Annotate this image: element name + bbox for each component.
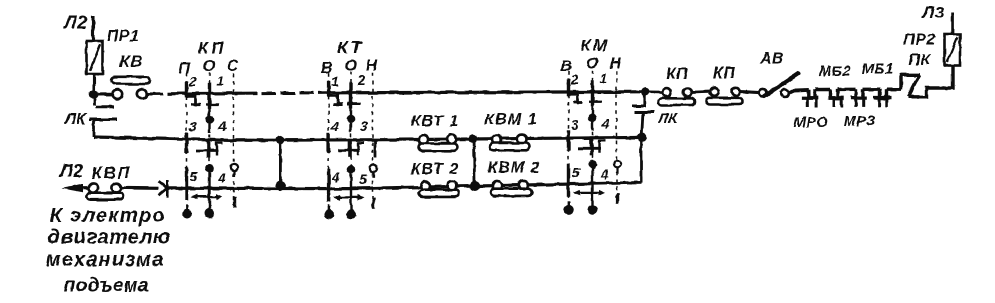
svg-text:КВМ 1: КВМ 1 (484, 112, 537, 129)
svg-text:1: 1 (599, 70, 607, 86)
node (closed in position О) (588, 113, 597, 122)
closure range arrows (337, 196, 360, 198)
wire (rail2-rail3 tie) (279, 140, 282, 186)
svg-text:МБ2: МБ2 (819, 64, 851, 80)
svg-text:механизма: механизма (46, 249, 165, 271)
svg-text:КП: КП (198, 38, 226, 57)
svg-text:ПК: ПК (908, 52, 931, 69)
node junction (470, 181, 480, 191)
svg-text:ПР2: ПР2 (903, 32, 936, 49)
wire (coil line) (793, 88, 809, 92)
node junction (468, 134, 477, 143)
svg-text:КП: КП (713, 65, 735, 82)
svg-text:КВ: КВ (119, 52, 143, 71)
node (position Н) (370, 165, 377, 172)
svg-text:КВП: КВП (92, 164, 132, 183)
svg-text:КТ: КТ (337, 38, 363, 57)
wire (788, 90, 794, 93)
svg-text:1: 1 (216, 72, 224, 88)
svg-text:МРО: МРО (794, 115, 829, 131)
svg-text:О: О (345, 57, 358, 74)
svg-text:подъема: подъема (64, 276, 149, 297)
wire rail 3 (121, 186, 159, 190)
svg-text:1: 1 (331, 73, 339, 89)
fuse ПР1 (87, 41, 103, 74)
svg-text:Л2: Л2 (58, 161, 83, 181)
node (closed in position О) (347, 115, 356, 124)
svg-text:ЛК: ЛК (657, 110, 678, 126)
wire (Н column mark) (374, 141, 377, 158)
node (position Н) (614, 160, 621, 167)
node junction (89, 90, 98, 99)
svg-text:2: 2 (188, 73, 197, 89)
svg-text:3: 3 (571, 116, 579, 132)
wire (838, 88, 856, 91)
node (closed in position О) (205, 164, 214, 173)
node (closed in position О) (205, 115, 214, 124)
closure range arrows (195, 196, 219, 198)
node junction (637, 133, 646, 142)
svg-text:4: 4 (217, 170, 226, 186)
svg-text:4: 4 (331, 169, 340, 185)
svg-text:двигателю: двигателю (48, 227, 171, 249)
wire (887, 87, 902, 90)
svg-text:5: 5 (190, 168, 198, 184)
wire (92, 74, 95, 92)
svg-text:3: 3 (189, 119, 197, 135)
wire rail 3 (167, 183, 641, 189)
svg-text:Н: Н (365, 57, 377, 74)
svg-text:МРЗ: МРЗ (844, 114, 876, 130)
svg-text:5: 5 (359, 171, 367, 187)
wire (rail2-rail3 tie) (473, 139, 476, 186)
svg-text:ЛК: ЛК (64, 111, 87, 128)
node junction (275, 181, 285, 191)
node junction (276, 135, 285, 144)
svg-text:4: 4 (217, 118, 226, 134)
node junction (641, 87, 650, 96)
wire rail 1 (98, 93, 113, 96)
svg-text:МБ1: МБ1 (862, 62, 894, 78)
wire (692, 90, 710, 94)
svg-text:АВ: АВ (759, 51, 784, 68)
svg-text:4: 4 (600, 166, 609, 182)
wire (740, 92, 759, 93)
svg-text:4: 4 (600, 116, 609, 132)
svg-text:С: С (226, 58, 238, 75)
wire (91, 16, 94, 41)
wire (650, 90, 663, 93)
wire (815, 88, 830, 91)
svg-text:КВМ 2: КВМ 2 (487, 160, 540, 177)
chevron mark (159, 180, 168, 198)
svg-text:Л2: Л2 (62, 13, 87, 33)
svg-text:3: 3 (360, 118, 368, 134)
svg-text:КВТ 1: КВТ 1 (411, 113, 460, 130)
node (closed in position О) (347, 165, 356, 174)
wire (rail3 right end up to rail2) (640, 137, 643, 182)
svg-text:КМ: КМ (580, 36, 610, 55)
svg-text:КВТ 2: КВТ 2 (411, 161, 460, 178)
svg-text:5: 5 (572, 164, 580, 180)
svg-text:О: О (203, 58, 216, 75)
svg-text:О: О (586, 56, 599, 73)
svg-text:4: 4 (330, 118, 339, 134)
contact segment marks below rail 3 (182, 209, 192, 219)
svg-text:Н: Н (609, 56, 621, 73)
node (position С) (231, 164, 238, 171)
wire rail 2 (94, 137, 642, 140)
svg-text:2: 2 (570, 71, 579, 87)
wire (951, 12, 954, 34)
svg-text:К электро: К электро (50, 205, 166, 227)
svg-text:2: 2 (357, 72, 366, 88)
svg-text:Л3: Л3 (920, 3, 944, 22)
closure range arrows (577, 192, 602, 194)
contact segment marks below rail 3 (564, 205, 574, 215)
wire (863, 87, 880, 91)
contact segment marks below rail 3 (324, 209, 334, 219)
svg-text:КП: КП (666, 66, 688, 83)
node (closed in position О) (588, 161, 597, 170)
svg-text:ПР1: ПР1 (107, 28, 140, 45)
